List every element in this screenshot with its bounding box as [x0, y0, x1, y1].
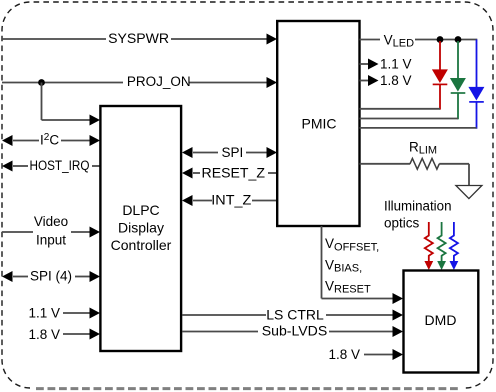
svg-text:1.1 V: 1.1 V — [380, 56, 412, 71]
LED D2 green cathode wire — [457, 93, 459, 119]
arrowhead 1.8 V into DLPC — [90, 329, 101, 340]
arrowhead PROJ_ON into PMIC — [267, 77, 278, 88]
arrowhead I2C left — [2, 135, 13, 146]
svg-text:1.8 V: 1.8 V — [328, 347, 360, 362]
arrowhead SYSPWR into PMIC — [267, 34, 278, 45]
LED D1 red cathode wire — [439, 84, 441, 109]
wire HOST_IRQ left segment — [13, 165, 28, 167]
arrowhead blue light into DMD — [450, 261, 459, 270]
svg-text:SYSPWR: SYSPWR — [108, 31, 169, 46]
wire INT_Z left segment — [193, 200, 212, 202]
svg-text:Input: Input — [36, 233, 66, 248]
ground — [456, 186, 482, 199]
junction dot on PROJ_ON — [38, 79, 45, 86]
arrowhead SPI4 left — [2, 271, 13, 282]
arrowhead SPI into DLPC — [182, 147, 193, 158]
wire SPI left segment — [193, 152, 218, 154]
wire 1.8 V PMIC output — [360, 80, 370, 82]
wire I2C right segment — [61, 140, 91, 142]
svg-text:PMIC: PMIC — [302, 116, 337, 132]
LED D3 blue anode wire — [476, 40, 478, 88]
svg-text:Illumination: Illumination — [384, 199, 452, 214]
wire 1.1 V PMIC output — [360, 63, 370, 65]
wire INT_Z right segment — [252, 200, 277, 202]
svg-text:DMD: DMD — [425, 312, 457, 328]
wire RLIM left segment — [360, 163, 411, 165]
svg-text:SPI (4): SPI (4) — [30, 268, 72, 283]
svg-text:optics: optics — [384, 215, 420, 230]
wire 1.1 V into DLPC — [63, 312, 91, 314]
LED D1 red anode wire — [439, 41, 441, 70]
arrowhead bias wires into DMD — [393, 293, 404, 304]
svg-text:Video: Video — [34, 214, 68, 229]
wire PROJ_ON segment left — [2, 82, 123, 84]
arrowhead Video Input into DLPC — [90, 227, 101, 238]
wire PROJ_ON segment right — [189, 82, 268, 84]
wire SPI4 left segment — [13, 276, 28, 278]
wire PROJ_ON branch horizontal — [42, 119, 91, 121]
junction dot VLED node A — [437, 36, 444, 43]
LED D2 green cathode bar — [451, 92, 466, 94]
svg-text:Sub-LVDS: Sub-LVDS — [262, 323, 328, 338]
arrowhead red light into DMD — [424, 261, 433, 270]
svg-text:1.8 V: 1.8 V — [380, 73, 412, 88]
wire RLIM right segment — [439, 163, 469, 165]
wire VLED right segment — [415, 39, 477, 41]
wire RESET_Z right segment — [268, 172, 277, 174]
wire I2C left segment — [13, 140, 39, 142]
wire VOFFSET VBIAS VRESET horizontal to DMD — [322, 298, 394, 300]
LED D3 blue cathode wire — [476, 102, 478, 129]
wire Video Input right segment — [71, 231, 91, 233]
wire RESET_Z left segment — [193, 172, 200, 174]
svg-text:VOFFSET,: VOFFSET, — [325, 236, 379, 253]
svg-text:INT_Z: INT_Z — [211, 193, 251, 208]
svg-text:1.8 V: 1.8 V — [28, 327, 60, 342]
arrowhead green light into DMD — [437, 261, 446, 270]
enclosure bottom thick dashed edge — [36, 387, 458, 390]
svg-text:RESET_Z: RESET_Z — [202, 166, 266, 181]
wire LS CTRL left segment — [182, 314, 266, 316]
wire VLED left segment — [360, 39, 381, 41]
resistor RLIM zigzag — [410, 158, 439, 169]
green light squiggle arrow into DMD — [438, 222, 446, 262]
arrowhead 1.8 V output — [368, 75, 379, 86]
wire 1.8 V into DMD — [364, 354, 394, 356]
svg-text:Display: Display — [118, 220, 164, 236]
wire SPI right segment — [246, 152, 268, 154]
arrowhead INT_Z into DLPC — [182, 195, 193, 206]
arrowhead I2C into DLPC — [90, 135, 101, 146]
wire LS CTRL right segment — [326, 314, 394, 316]
svg-text:Controller: Controller — [111, 237, 172, 253]
arrowhead HOST_IRQ left — [2, 161, 13, 172]
svg-text:VLED: VLED — [384, 32, 414, 49]
blue light squiggle arrow into DMD — [450, 222, 458, 262]
LED D3 blue cathode bar — [469, 101, 484, 103]
arrowhead 1.1 V output — [368, 59, 379, 70]
block U3 DMD — [404, 271, 479, 373]
svg-text:HOST_IRQ: HOST_IRQ — [30, 158, 90, 173]
red light squiggle arrow into DMD — [425, 222, 433, 262]
svg-text:SPI: SPI — [222, 145, 244, 160]
arrowhead RESET_Z into DLPC — [182, 168, 193, 179]
arrowhead LS CTRL into DMD — [393, 310, 404, 321]
arrowhead SPI4 into DLPC — [90, 271, 101, 282]
svg-text:1.1 V: 1.1 V — [28, 305, 60, 320]
wire SPI4 right segment — [75, 276, 91, 278]
wire SYSPWR segment right — [171, 38, 268, 40]
svg-text:RLIM: RLIM — [409, 140, 437, 157]
wire RLIM down to ground — [468, 164, 470, 186]
block U1 DLPC Display Controller — [100, 106, 181, 351]
svg-text:I2C: I2C — [40, 132, 59, 148]
wire 1.8 V into DLPC — [63, 333, 91, 335]
wire SYSPWR segment left — [2, 38, 106, 40]
LED D1 red triangle — [432, 69, 448, 83]
LED D2 green triangle — [450, 78, 466, 92]
wire green LED return to PMIC — [360, 118, 459, 120]
arrowhead PROJ_ON branch into DLPC — [90, 115, 101, 126]
svg-text:VBIAS,: VBIAS, — [325, 257, 362, 274]
LED D3 blue triangle — [468, 87, 484, 101]
wire HOST_IRQ right segment — [92, 165, 100, 167]
LED D1 red cathode bar — [433, 83, 448, 85]
arrowhead 1.1 V into DLPC — [90, 308, 101, 319]
arrowhead SPI into PMIC — [267, 147, 278, 158]
wire VOFFSET VBIAS VRESET vertical from PMIC — [321, 226, 323, 299]
svg-text:DLPC: DLPC — [122, 202, 159, 218]
wire PROJ_ON branch vertical — [41, 83, 43, 121]
wire Video Input left segment — [2, 231, 33, 233]
junction dot VLED node B — [455, 36, 462, 43]
wire blue LED return to PMIC — [360, 127, 477, 129]
wire Sub-LVDS right segment — [329, 331, 394, 333]
arrowhead Sub-LVDS into DMD — [393, 326, 404, 337]
wire red LED return to PMIC — [360, 108, 441, 110]
svg-text:PROJ_ON: PROJ_ON — [127, 74, 191, 89]
svg-text:VRESET: VRESET — [325, 278, 371, 295]
svg-text:LS CTRL: LS CTRL — [266, 307, 324, 322]
arrowhead 1.8 V into DMD — [393, 349, 404, 360]
wire Sub-LVDS left segment — [182, 331, 258, 333]
block U2 PMIC — [277, 21, 359, 226]
LED D2 green anode wire — [457, 41, 459, 78]
